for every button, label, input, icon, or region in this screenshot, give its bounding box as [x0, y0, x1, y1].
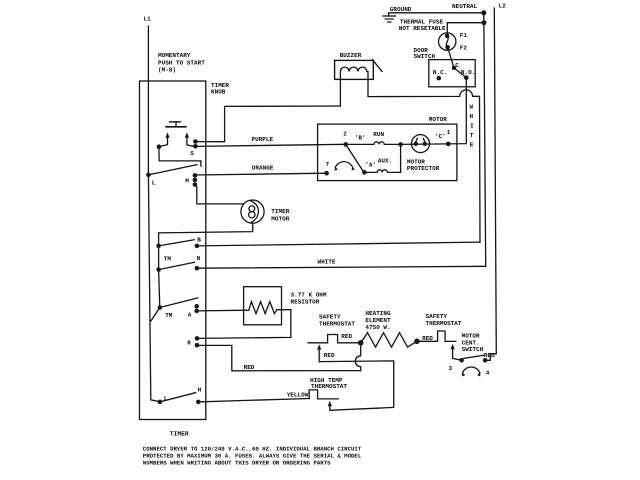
- svg-text:WHITE: WHITE: [318, 259, 336, 266]
- buzzer: [335, 60, 374, 79]
- wire buzzer left leg down: [339, 79, 341, 106]
- blade C to N.O.: [454, 68, 466, 78]
- svg-text:NEUTRAL: NEUTRAL: [452, 3, 478, 10]
- svg-text:L: L: [152, 180, 156, 187]
- svg-text:7: 7: [326, 161, 330, 168]
- svg-text:H: H: [198, 386, 202, 393]
- wire M to timer motor: [195, 185, 244, 204]
- wire red riser with crossover hop: [355, 343, 360, 371]
- switch L-M pivot: [146, 173, 151, 178]
- wire timer rail TM1-TM2-TM3: [159, 233, 160, 308]
- blade TM1 to B: [159, 240, 195, 246]
- resistor box: [244, 287, 282, 325]
- wire purple: S to motor terminal 2: [195, 144, 345, 146]
- contact 7: [324, 171, 329, 176]
- svg-text:BUZZER: BUZZER: [340, 52, 362, 59]
- resistor R1 element: [249, 302, 291, 314]
- svg-text:3: 3: [449, 365, 453, 372]
- contact M terminals: [193, 173, 198, 178]
- junction run/aux: [398, 142, 403, 147]
- contact N: [195, 266, 200, 271]
- contact C: [452, 66, 456, 70]
- contact H: [196, 400, 201, 405]
- svg-text:RED: RED: [244, 364, 255, 371]
- svg-text:1: 1: [447, 129, 451, 136]
- wire buzzer right to crossover and riser: [368, 79, 480, 242]
- contact B: [195, 244, 200, 249]
- switch L-H pivot (bottom): [158, 400, 163, 405]
- contact A terminals: [194, 304, 199, 309]
- svg-text:2: 2: [343, 130, 347, 137]
- wire white: N contact to neutral riser: [197, 266, 486, 268]
- wire fuse to door switch C: [448, 47, 454, 68]
- contact R terminals: [195, 336, 200, 341]
- svg-text:YELLOW: YELLOW: [287, 391, 309, 398]
- svg-text:TM: TM: [165, 312, 173, 319]
- svg-text:M: M: [185, 178, 189, 185]
- timer box: [140, 81, 206, 420]
- thermal fuse F1/F2: [439, 33, 456, 50]
- svg-text:S: S: [190, 150, 194, 157]
- contact 2: [343, 142, 348, 147]
- contact 3: [459, 358, 464, 363]
- svg-text:HEATING: HEATING: [365, 310, 391, 317]
- svg-text:’A’: ’A’: [365, 162, 376, 169]
- heating element 4750W: [361, 333, 417, 347]
- svg-text:RUN: RUN: [373, 131, 384, 138]
- junction neutral/fuse: [481, 20, 486, 25]
- contact N.O.: [464, 75, 469, 80]
- wire S to buzzer left: [195, 106, 340, 142]
- svg-text:E: E: [470, 142, 474, 149]
- svg-text:N.C.: N.C.: [433, 69, 447, 76]
- svg-text:F2: F2: [460, 45, 468, 52]
- svg-text:’C’: ’C’: [435, 133, 446, 140]
- svg-text:TIMER: TIMER: [170, 430, 189, 437]
- arc cent switch travel: [462, 367, 480, 373]
- svg-text:L2: L2: [499, 2, 507, 9]
- svg-text:SAFETY: SAFETY: [426, 313, 448, 320]
- blade 3 to 4: [464, 355, 484, 358]
- svg-text:SAFETY: SAFETY: [319, 314, 341, 321]
- wire red: R lower to heating junction: [197, 345, 361, 370]
- wire timer motor bottom lead: [159, 223, 253, 233]
- left safety thermostat: [308, 335, 361, 343]
- svg-text:W: W: [470, 104, 474, 111]
- svg-text:L1: L1: [144, 16, 152, 23]
- high temp thermostat: [309, 390, 338, 399]
- right thermostat contact arrow from cent switch 3: [451, 344, 455, 350]
- svg-text:RED: RED: [484, 352, 495, 359]
- wire L1 feed down left side of timer: [148, 26, 160, 402]
- junction heating element right: [414, 339, 420, 345]
- svg-text:TIMER: TIMER: [271, 208, 289, 215]
- blade L to M: [148, 165, 197, 175]
- svg-text:N: N: [197, 255, 201, 262]
- blade L to H: [160, 393, 196, 402]
- svg-text:PROTECTED BY MAXIMUM 30 A. FUS: PROTECTED BY MAXIMUM 30 A. FUSES. ALWAYS…: [143, 452, 362, 459]
- caption text: [143, 445, 362, 466]
- wire A to resistor: [197, 309, 249, 312]
- blade TM3 to A: [160, 298, 198, 308]
- right safety thermostat: [417, 331, 456, 341]
- svg-text:MOTOR: MOTOR: [271, 216, 289, 223]
- motor protector U1: [412, 135, 430, 153]
- svg-text:MOMENTARY: MOMENTARY: [158, 52, 191, 59]
- svg-text:ELEMENT: ELEMENT: [365, 317, 391, 324]
- svg-text:4750 W.: 4750 W.: [365, 324, 390, 331]
- svg-text:RED: RED: [341, 333, 352, 340]
- contact A: [362, 170, 367, 175]
- svg-text:KNOB: KNOB: [211, 89, 226, 96]
- svg-text:CONNECT DRYER TO 120/240 V.A.C: CONNECT DRYER TO 120/240 V.A.C.,60 HZ. I…: [143, 445, 362, 452]
- motor box: [318, 124, 457, 181]
- svg-text:B: B: [197, 237, 201, 244]
- switch TM3 pivot: [158, 305, 163, 310]
- svg-text:TM: TM: [164, 256, 172, 263]
- svg-text:F1: F1: [460, 32, 468, 39]
- svg-text:H: H: [470, 113, 474, 120]
- svg-text:A: A: [188, 312, 192, 319]
- svg-text:THERMOSTAT: THERMOSTAT: [319, 321, 355, 328]
- door switch box: [429, 60, 475, 87]
- contact S terminals: [193, 139, 198, 144]
- wire L2 drop to motor cent switch 4: [485, 8, 496, 360]
- wire TM3 pivot tap to L1 rail: [151, 308, 160, 322]
- svg-text:4: 4: [486, 370, 490, 377]
- contact 4: [483, 358, 488, 363]
- wire R upper to resistor output: [197, 310, 291, 339]
- left thermostat contact arrow: [317, 344, 321, 350]
- svg-text:MOTOR: MOTOR: [429, 116, 447, 123]
- wire fuse branch: [447, 23, 484, 34]
- switch TM1 pivot: [156, 244, 161, 249]
- high temp contact arrow: [328, 401, 332, 407]
- svg-text:PUSH TO START: PUSH TO START: [158, 59, 205, 66]
- aux winding: [364, 144, 400, 172]
- blade buzzer switch: [373, 60, 383, 72]
- svg-text:L: L: [164, 395, 168, 402]
- run winding: [346, 142, 401, 145]
- wire push-button to L-M blade tip: [159, 148, 201, 166]
- svg-text:NOT RESETABLE: NOT RESETABLE: [399, 25, 446, 32]
- svg-text:AUX.: AUX.: [378, 158, 392, 165]
- contact N.C.: [437, 76, 442, 81]
- wire neutral drop to N: [484, 13, 486, 266]
- svg-text:I: I: [470, 123, 474, 130]
- svg-text:R: R: [187, 339, 191, 346]
- label WHITE vertical: [470, 104, 475, 149]
- blade 2 to A: [346, 144, 364, 171]
- svg-text:PURPLE: PURPLE: [252, 136, 274, 143]
- junction push-button left contact: [157, 144, 162, 149]
- svg-text:ORANGE: ORANGE: [252, 164, 274, 171]
- wire B contact to buzzer riser: [197, 242, 480, 246]
- wire to motor protector and pin 1: [401, 143, 449, 146]
- switch TM2 pivot: [156, 267, 161, 272]
- wire yellow: H to high temp thermostat: [198, 399, 309, 402]
- svg-text:THERMOSTAT: THERMOSTAT: [426, 320, 462, 327]
- svg-text:T: T: [470, 132, 474, 139]
- wire white: pin 1 out to door switch N.O.: [448, 78, 466, 144]
- svg-text:THERMOSTAT: THERMOSTAT: [311, 383, 347, 390]
- svg-text:NUMBERS WHEN WRITING ABOUT THI: NUMBERS WHEN WRITING ABOUT THIS DRYER OR…: [143, 459, 331, 466]
- wire orange: M to motor terminal 7: [195, 173, 327, 175]
- momentary push button M-8: [159, 122, 193, 147]
- svg-text:GROUND: GROUND: [390, 6, 412, 13]
- svg-text:RESISTOR: RESISTOR: [291, 299, 320, 306]
- junction heating element left: [358, 340, 364, 346]
- blade TM2 to N: [159, 262, 195, 269]
- timer motor TM: [241, 200, 264, 223]
- junction neutral/ground: [481, 10, 486, 15]
- svg-text:’B’: ’B’: [355, 135, 366, 142]
- svg-text:PROTECTOR: PROTECTOR: [407, 165, 440, 172]
- arc motor switch travel: [335, 162, 352, 168]
- svg-text:(M-8): (M-8): [158, 67, 176, 74]
- ground symbol: [383, 13, 484, 22]
- svg-text:SWITCH: SWITCH: [462, 346, 484, 353]
- contact 1: [446, 142, 451, 147]
- svg-text:RED: RED: [324, 352, 335, 359]
